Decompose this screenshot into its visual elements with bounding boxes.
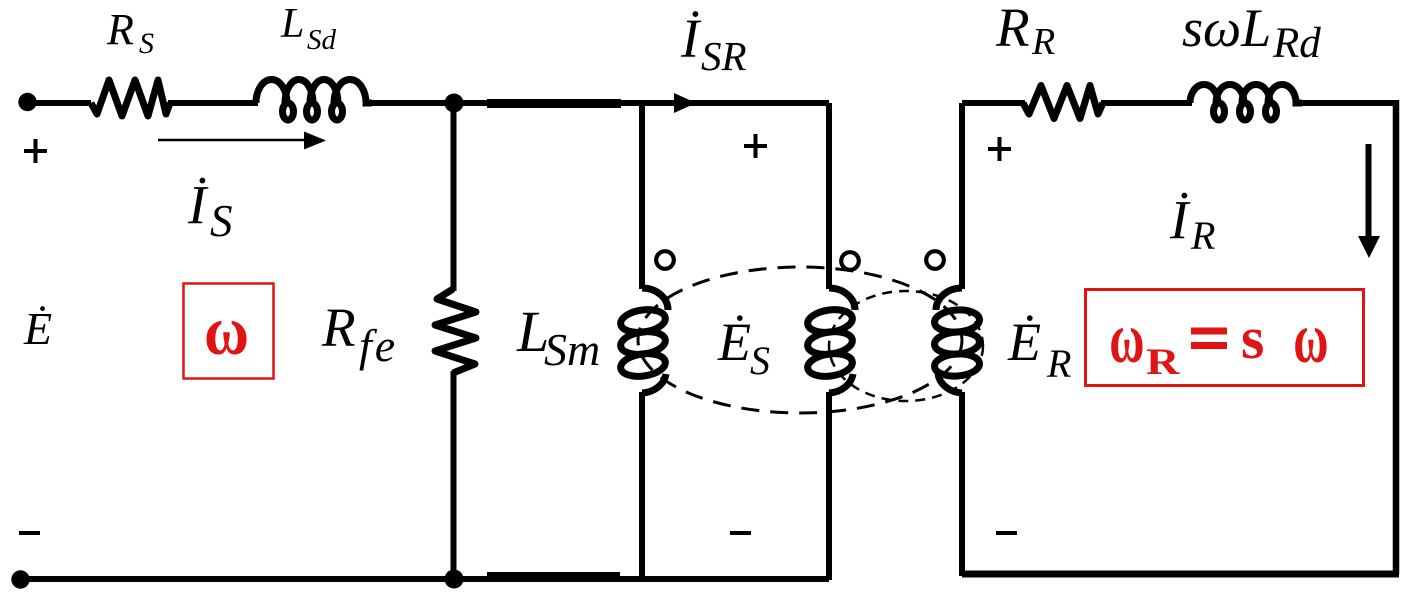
svg-text:ω: ω [204, 292, 249, 370]
svg-text:S: S [750, 338, 770, 383]
svg-text:İ: İ [187, 174, 209, 235]
svg-text:fe: fe [359, 320, 398, 371]
svg-text:Ė: Ė [23, 303, 52, 354]
svg-text:ω: ω [1109, 299, 1144, 379]
svg-text:L: L [280, 1, 304, 47]
svg-text:Sm: Sm [544, 324, 600, 375]
svg-text:Rd: Rd [1272, 20, 1321, 67]
svg-text:İ: İ [1169, 189, 1191, 250]
svg-text:R: R [1031, 21, 1055, 63]
svg-text:R: R [106, 5, 134, 54]
svg-text:R: R [995, 0, 1030, 58]
svg-text:S: S [210, 196, 233, 246]
svg-text:SR: SR [701, 33, 747, 79]
svg-text:Ė: Ė [1007, 312, 1041, 372]
svg-text:sωL: sωL [1182, 0, 1271, 58]
svg-text:R: R [1146, 342, 1180, 383]
svg-text:Ė: Ė [717, 312, 751, 372]
svg-text:R: R [321, 297, 356, 358]
svg-text:R: R [1046, 341, 1071, 386]
svg-text:R: R [1190, 213, 1215, 258]
svg-text:S: S [139, 27, 154, 60]
svg-text:İ: İ [680, 8, 702, 69]
svg-text:ω: ω [1293, 299, 1328, 379]
svg-text:s: s [1241, 305, 1264, 371]
svg-text:Sd: Sd [307, 24, 337, 56]
